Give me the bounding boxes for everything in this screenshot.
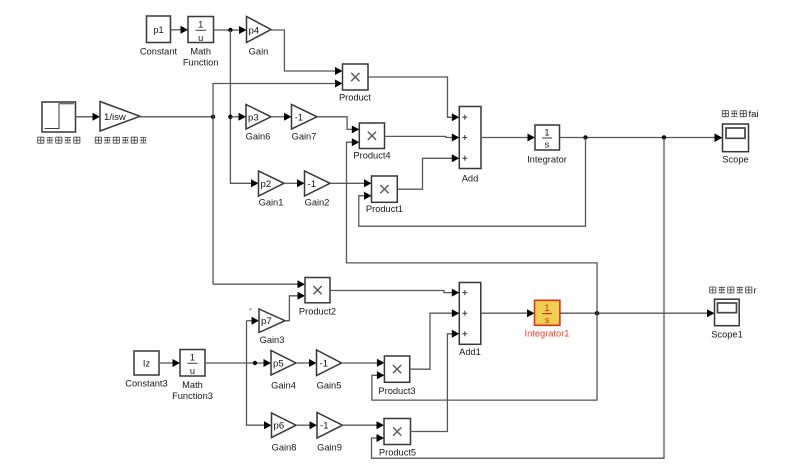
wire feedback r to Product4 port2 bbox=[347, 142, 598, 313]
svg-text:Gain5: Gain5 bbox=[317, 381, 342, 391]
svg-text:Integrator: Integrator bbox=[527, 155, 567, 165]
svg-text:1: 1 bbox=[198, 20, 203, 30]
product block Product1 bbox=[372, 176, 398, 202]
wire Product5 out to Add1 port3 bbox=[411, 334, 453, 432]
svg-text:1: 1 bbox=[544, 128, 549, 138]
svg-text:Gain4: Gain4 bbox=[271, 381, 296, 391]
gain Gain5 -1 bbox=[317, 350, 342, 376]
svg-text:-1: -1 bbox=[308, 179, 317, 190]
gain Gain1 p2 bbox=[259, 171, 285, 196]
gain Gain4 p5 bbox=[271, 351, 296, 376]
wire Product3 out to Add1 port2 bbox=[410, 313, 453, 369]
product block Product2 bbox=[305, 278, 330, 303]
node mf junction bbox=[228, 28, 232, 32]
wire 1/isw output to junction bbox=[140, 116, 213, 118]
svg-text:fai: fai bbox=[749, 109, 759, 120]
wire Iz to Math Function3 bbox=[159, 362, 173, 364]
svg-text:Iz: Iz bbox=[143, 359, 151, 369]
wire Gain1 to Gain2 bbox=[284, 182, 298, 184]
integrator Integrator1 highlighted bbox=[535, 300, 560, 325]
wire Math Function to Gain p4 bbox=[214, 29, 240, 31]
wire Product out to Add port1 bbox=[368, 77, 452, 117]
svg-text:Gain3: Gain3 bbox=[260, 335, 285, 345]
math function U3 1/u bbox=[180, 350, 205, 377]
svg-text:Add1: Add1 bbox=[459, 347, 481, 357]
wire Product1 out to Add port3 bbox=[397, 158, 452, 189]
wire Add to Integrator bbox=[481, 137, 528, 139]
scope Scope bbox=[723, 124, 749, 152]
svg-text:u: u bbox=[198, 33, 203, 43]
adder Add1 bbox=[459, 283, 481, 345]
svg-text:p6: p6 bbox=[274, 421, 285, 432]
label 方向盘转角 bbox=[38, 137, 80, 144]
gain 1/isw 转向系传动比 bbox=[100, 102, 140, 132]
wire Gain6 to Gain7 bbox=[271, 116, 285, 118]
node fb1 junction bbox=[583, 135, 587, 139]
wire mf3 branch to Gain3 and Gain8 bbox=[247, 321, 265, 426]
svg-text:Function3: Function3 bbox=[172, 391, 213, 401]
annotation dot near Gain3 bbox=[249, 308, 251, 310]
math function U1 1/u bbox=[188, 17, 214, 44]
svg-text:p5: p5 bbox=[273, 359, 284, 370]
svg-text:Constant3: Constant3 bbox=[125, 379, 167, 389]
wire Math Function3 to Gain4 bbox=[205, 362, 264, 364]
gain Gain6 p3 bbox=[246, 105, 271, 130]
svg-text:Constant: Constant bbox=[140, 47, 178, 57]
svg-text:Math: Math bbox=[190, 47, 211, 57]
wire Gain9 to Product5 port1 bbox=[343, 424, 378, 426]
gain Gain3 p7 bbox=[259, 309, 285, 333]
svg-text:Gain8: Gain8 bbox=[272, 443, 297, 453]
svg-text:Function: Function bbox=[183, 58, 219, 68]
wire feedback r to Product3 port2 bbox=[372, 313, 597, 400]
node fb4 junction bbox=[662, 135, 666, 139]
step source 方向盘转角 bbox=[42, 102, 76, 132]
svg-text:p1: p1 bbox=[153, 25, 163, 35]
product block Product5 bbox=[384, 419, 411, 445]
svg-text:s: s bbox=[545, 315, 550, 325]
svg-text:-1: -1 bbox=[320, 359, 329, 370]
gain Gain2 -1 bbox=[305, 171, 331, 196]
svg-text:Integrator1: Integrator1 bbox=[525, 329, 570, 339]
svg-text:-1: -1 bbox=[295, 112, 304, 123]
svg-text:-1: -1 bbox=[320, 421, 329, 432]
svg-text:Gain6: Gain6 bbox=[246, 132, 271, 142]
gain G-p4 bbox=[247, 17, 272, 43]
node isw junction bbox=[211, 115, 215, 119]
svg-text:Math: Math bbox=[182, 380, 203, 390]
svg-text:Add: Add bbox=[462, 174, 479, 184]
svg-text:Product: Product bbox=[339, 93, 371, 103]
wire Integrator to Scope bbox=[560, 137, 716, 139]
gain Gain9 -1 bbox=[317, 413, 343, 439]
svg-text:Product4: Product4 bbox=[353, 151, 390, 161]
svg-text:Product1: Product1 bbox=[366, 204, 403, 214]
svg-text:1: 1 bbox=[544, 303, 549, 313]
svg-text:p3: p3 bbox=[248, 112, 259, 123]
adder Add bbox=[459, 107, 481, 169]
svg-text:Scope: Scope bbox=[722, 155, 748, 165]
scope Scope1 bbox=[715, 299, 740, 326]
svg-text:Product3: Product3 bbox=[378, 386, 415, 396]
wire feedback fai to Product1 port2 bbox=[359, 138, 586, 227]
wire p4 to Product port1 bbox=[271, 30, 336, 71]
constant p1 bbox=[147, 16, 171, 43]
wire mf branch down to Gain6 and Gain1 bbox=[230, 30, 251, 183]
svg-text:Scope1: Scope1 bbox=[711, 330, 743, 340]
node fb23 junction bbox=[595, 311, 599, 315]
wire Product2 out to Add1 port1 bbox=[330, 291, 452, 293]
svg-text:p4: p4 bbox=[249, 26, 260, 37]
wire feedback fai to Product5 port2 bbox=[372, 138, 665, 459]
svg-text:1: 1 bbox=[190, 353, 195, 363]
wire p1 to Math Function bbox=[171, 29, 182, 31]
wire Integrator1 to Scope1 bbox=[560, 312, 708, 314]
wire Gain8 to Gain9 bbox=[296, 424, 310, 426]
product block Product bbox=[343, 64, 369, 90]
svg-text:Gain: Gain bbox=[249, 47, 269, 57]
svg-text:u: u bbox=[190, 366, 195, 376]
svg-text:Gain1: Gain1 bbox=[259, 198, 284, 208]
svg-text:Gain9: Gain9 bbox=[317, 443, 342, 453]
wire Gain5 to Product3 port1 bbox=[342, 362, 378, 364]
gain Gain7 -1 bbox=[292, 105, 318, 130]
wire Gain3 to Product2 port2 bbox=[285, 296, 298, 321]
wire Gain7 to Product4 port1 bbox=[317, 117, 352, 130]
svg-text:Product5: Product5 bbox=[379, 448, 416, 458]
wire Add1 to Integrator1 bbox=[481, 312, 528, 314]
label 转向系传动比 bbox=[95, 137, 146, 144]
node mf3 junction bbox=[253, 361, 257, 365]
svg-text:p2: p2 bbox=[261, 179, 272, 190]
svg-text:Gain2: Gain2 bbox=[305, 198, 330, 208]
integrator U2 1/s bbox=[535, 125, 560, 150]
product block Product4 bbox=[359, 123, 384, 149]
gain Gain8 p6 bbox=[272, 413, 297, 438]
label 横摆角速度r bbox=[710, 285, 758, 296]
svg-text:1/isw: 1/isw bbox=[104, 112, 126, 123]
svg-text:s: s bbox=[545, 140, 550, 150]
wire Gain2 to Product1 port1 bbox=[330, 182, 365, 184]
svg-text:Product2: Product2 bbox=[299, 307, 336, 317]
wire step to 1/isw bbox=[76, 116, 94, 118]
constant Constant3 Iz bbox=[134, 351, 159, 375]
product block Product3 bbox=[384, 356, 409, 382]
label 侧倾角fai bbox=[722, 109, 758, 120]
wire Product4 out to Add port2 bbox=[385, 136, 453, 137]
wire isw branch up to Product port2 and down to Product2 port1 bbox=[213, 84, 336, 285]
svg-text:Gain7: Gain7 bbox=[292, 132, 317, 142]
wire Gain4 to Gain5 bbox=[296, 362, 310, 364]
svg-text:p7: p7 bbox=[261, 316, 272, 327]
